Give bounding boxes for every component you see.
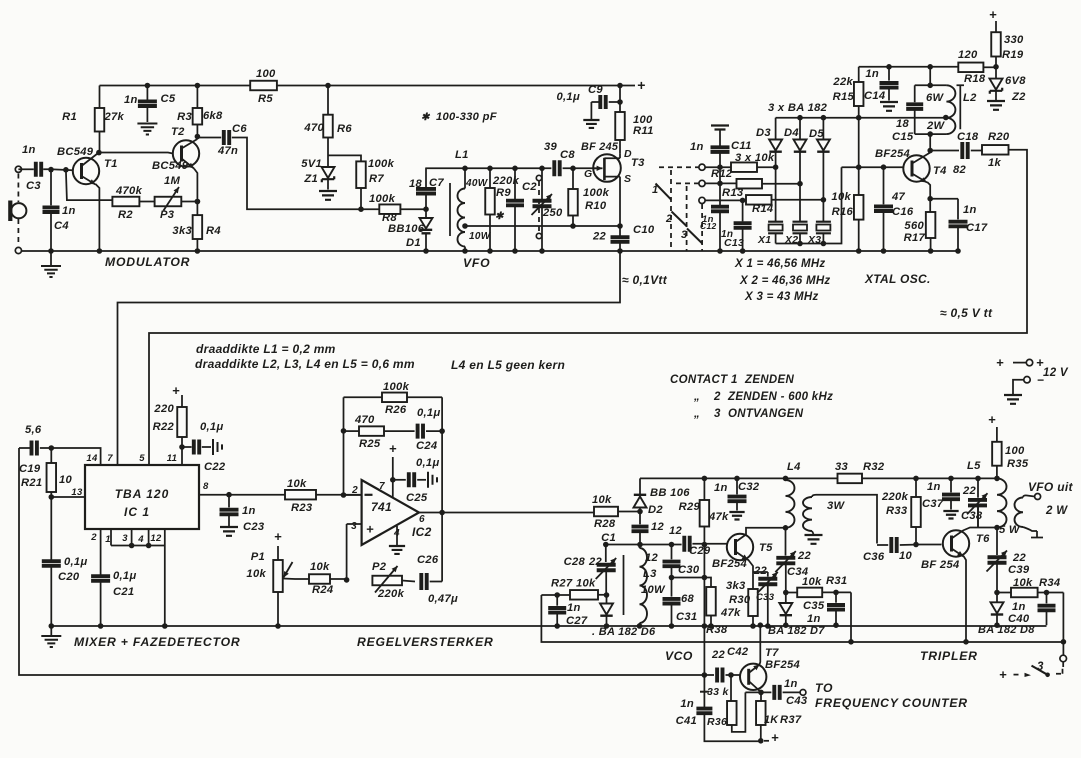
svg-text:Z1: Z1 (303, 173, 318, 185)
svg-text:27k: 27k (104, 111, 125, 123)
svg-text:5V1: 5V1 (301, 158, 322, 170)
svg-text:3: 3 (122, 533, 128, 544)
svg-text:R31: R31 (826, 575, 847, 587)
svg-text:220k: 220k (881, 491, 909, 503)
svg-text:0,1μ: 0,1μ (417, 407, 441, 419)
svg-text:2 W: 2 W (1045, 505, 1068, 517)
svg-text:22k: 22k (832, 76, 853, 88)
svg-text:39: 39 (544, 141, 558, 153)
svg-text:10k: 10k (246, 568, 266, 580)
svg-text:C27: C27 (566, 615, 588, 627)
svg-text:12: 12 (645, 552, 659, 564)
svg-text:C10: C10 (633, 224, 655, 236)
svg-text:0,1μ: 0,1μ (200, 421, 224, 433)
svg-text:22: 22 (797, 550, 812, 562)
svg-text:R22: R22 (153, 421, 175, 433)
svg-text:+: + (988, 412, 996, 427)
svg-text:2: 2 (351, 485, 358, 496)
svg-text:L4 en L5 geen kern: L4 en L5 geen kern (451, 358, 565, 372)
svg-text:2: 2 (713, 391, 721, 403)
svg-text:C38: C38 (961, 510, 983, 522)
svg-text:TBA 120: TBA 120 (115, 487, 170, 501)
svg-text:C42: C42 (727, 646, 749, 658)
svg-text:1n: 1n (124, 94, 138, 106)
svg-text:7: 7 (107, 453, 113, 464)
svg-text:IC 1: IC 1 (124, 505, 150, 519)
svg-text:TO: TO (815, 681, 833, 695)
svg-text:0,1μ: 0,1μ (64, 556, 88, 568)
svg-text:C20: C20 (58, 571, 80, 583)
svg-text:3: 3 (714, 408, 721, 420)
svg-text:10W: 10W (641, 584, 666, 596)
svg-text:+: + (989, 7, 997, 22)
svg-text:1n: 1n (690, 141, 704, 153)
svg-text:6W: 6W (926, 92, 945, 104)
svg-text:C17: C17 (966, 222, 988, 234)
svg-text:100k: 100k (383, 381, 410, 393)
svg-text:R18: R18 (964, 73, 986, 85)
svg-text:L5: L5 (967, 460, 981, 472)
svg-text:3 x BA 182: 3 x BA 182 (768, 102, 828, 114)
svg-text:R9: R9 (496, 187, 511, 199)
svg-text:„: „ (693, 408, 700, 420)
svg-text:MIXER + FAZEDETECTOR: MIXER + FAZEDETECTOR (74, 635, 240, 649)
svg-text:R6: R6 (337, 123, 352, 135)
svg-text:C25: C25 (406, 492, 428, 504)
svg-text:100k: 100k (583, 187, 610, 199)
svg-text:100-330 pF: 100-330 pF (436, 111, 498, 123)
svg-text:R2: R2 (118, 209, 133, 221)
svg-text:≈ 0,1Vtt: ≈ 0,1Vtt (622, 273, 668, 287)
svg-text:6k8: 6k8 (203, 110, 223, 122)
svg-text:R36: R36 (707, 716, 727, 728)
svg-text:8: 8 (203, 481, 209, 492)
svg-text:2W: 2W (926, 120, 946, 132)
svg-text:22: 22 (962, 485, 977, 497)
svg-text:4: 4 (393, 528, 400, 539)
svg-text:10: 10 (59, 474, 73, 486)
svg-text:+: + (996, 355, 1004, 370)
svg-text:C37: C37 (922, 498, 944, 510)
svg-text:+: + (366, 522, 374, 537)
svg-text:10: 10 (899, 550, 913, 562)
svg-text:1: 1 (105, 534, 111, 545)
svg-text:3: 3 (351, 521, 357, 532)
svg-text:BF254: BF254 (712, 558, 748, 570)
svg-text:13: 13 (71, 487, 83, 498)
svg-text:+: + (637, 77, 645, 93)
svg-text:C18: C18 (957, 131, 979, 143)
svg-text:100: 100 (256, 68, 276, 80)
svg-text:G: G (584, 168, 592, 180)
svg-text:R13: R13 (722, 187, 744, 199)
svg-text:BB106: BB106 (388, 223, 425, 235)
svg-text:22: 22 (1012, 552, 1027, 564)
svg-text:3: 3 (681, 229, 687, 241)
svg-text:BF 245: BF 245 (581, 141, 619, 153)
svg-text:1n: 1n (680, 698, 694, 710)
svg-text:MODULATOR: MODULATOR (105, 255, 190, 269)
svg-text:BA 182 D7: BA 182 D7 (768, 625, 825, 637)
svg-text:C23: C23 (243, 521, 265, 533)
svg-text:C11: C11 (731, 140, 752, 152)
svg-text:R16: R16 (832, 206, 854, 218)
svg-text:C19: C19 (19, 463, 41, 475)
svg-text:BC549: BC549 (152, 160, 189, 172)
svg-text:7: 7 (379, 481, 385, 492)
svg-text:C3: C3 (26, 180, 41, 192)
svg-text:R14: R14 (752, 203, 774, 215)
svg-text:+: + (172, 383, 180, 398)
svg-text:1K: 1K (764, 714, 779, 726)
svg-text:COUNTER: COUNTER (902, 696, 968, 710)
svg-text:S: S (624, 173, 631, 185)
svg-text:1n: 1n (62, 205, 76, 217)
svg-text:220k: 220k (377, 588, 405, 600)
svg-text:R15: R15 (833, 91, 855, 103)
svg-text:TRIPLER: TRIPLER (920, 649, 978, 663)
svg-text:470k: 470k (115, 185, 143, 197)
svg-text:12: 12 (669, 525, 683, 537)
svg-text:R34: R34 (1039, 577, 1061, 589)
svg-text:T2: T2 (171, 126, 185, 138)
svg-text:R29: R29 (679, 501, 701, 513)
svg-text:L2: L2 (963, 92, 977, 104)
svg-text:22: 22 (711, 649, 726, 661)
svg-text:C1: C1 (601, 532, 616, 544)
svg-text:C41: C41 (676, 715, 697, 727)
svg-text:C4: C4 (54, 220, 69, 232)
svg-text:R32: R32 (863, 461, 885, 473)
svg-text:1n: 1n (927, 481, 941, 493)
svg-text:+: + (999, 667, 1007, 682)
svg-text:100k: 100k (368, 158, 395, 170)
svg-text:33 k: 33 k (707, 686, 729, 698)
svg-text:5,6: 5,6 (25, 424, 42, 436)
svg-text:R19: R19 (1002, 49, 1024, 61)
svg-text:1M: 1M (164, 175, 181, 187)
svg-text:220: 220 (153, 403, 174, 415)
svg-text:VFO uit: VFO uit (1028, 480, 1073, 494)
svg-text:+: + (389, 441, 397, 456)
svg-text:R12: R12 (711, 168, 733, 180)
svg-text:100: 100 (1005, 445, 1025, 457)
svg-text:R3: R3 (177, 111, 192, 123)
svg-text:3: 3 (1037, 661, 1044, 673)
svg-text:R1: R1 (62, 111, 77, 123)
svg-text:X 1 = 46,56 MHz: X 1 = 46,56 MHz (734, 258, 825, 270)
svg-text:R24: R24 (312, 584, 334, 596)
svg-text:1n: 1n (714, 482, 728, 494)
svg-text:BB 106: BB 106 (650, 487, 690, 499)
svg-text:2: 2 (90, 532, 97, 543)
svg-text:R38: R38 (706, 624, 728, 636)
svg-text:P3: P3 (160, 209, 175, 221)
svg-text:14: 14 (86, 453, 98, 464)
svg-text:draaddikte L2, L3, L4 en L5 =: draaddikte L2, L3, L4 en L5 = 0,6 mm (195, 357, 415, 371)
svg-text:R25: R25 (359, 438, 381, 450)
svg-text:ONTVANGEN: ONTVANGEN (728, 408, 804, 420)
svg-text:P1: P1 (251, 551, 265, 563)
svg-text:47n: 47n (217, 145, 238, 157)
svg-text:R10: R10 (585, 200, 607, 212)
svg-text:C43: C43 (786, 695, 808, 707)
svg-text:+: + (771, 730, 779, 745)
svg-text:1n: 1n (784, 678, 798, 690)
svg-text:REGELVERSTERKER: REGELVERSTERKER (357, 635, 494, 649)
svg-text:C31: C31 (676, 611, 697, 623)
svg-text:C32: C32 (738, 481, 760, 493)
svg-text:C21: C21 (113, 586, 134, 598)
svg-text:BF254: BF254 (765, 659, 801, 671)
svg-text:R5: R5 (258, 93, 273, 105)
svg-text:1n: 1n (242, 505, 256, 517)
svg-text:IC2: IC2 (412, 525, 432, 539)
svg-text:2: 2 (665, 213, 672, 225)
svg-text:3k3: 3k3 (726, 580, 746, 592)
svg-text:4: 4 (137, 534, 144, 545)
svg-text:22: 22 (588, 556, 603, 568)
svg-text:33: 33 (835, 461, 849, 473)
svg-text:68: 68 (681, 593, 695, 605)
svg-text:VFO: VFO (463, 256, 490, 270)
svg-text:R35: R35 (1007, 458, 1029, 470)
svg-text:10k: 10k (576, 578, 596, 590)
svg-text:C8: C8 (560, 149, 575, 161)
svg-text:BC549: BC549 (57, 146, 94, 158)
svg-text:„: „ (693, 391, 700, 403)
svg-text:3k3: 3k3 (172, 225, 192, 237)
svg-text:L4: L4 (787, 461, 801, 473)
svg-text:T3: T3 (631, 157, 645, 169)
svg-text:C9: C9 (588, 84, 603, 96)
svg-text:C5: C5 (161, 93, 176, 105)
svg-text:18: 18 (409, 178, 423, 190)
svg-text:D1: D1 (406, 237, 421, 249)
svg-text:BF 254: BF 254 (921, 559, 960, 571)
svg-text:10k: 10k (831, 191, 851, 203)
svg-text:R7: R7 (369, 173, 384, 185)
svg-text:. BA 182 D6: . BA 182 D6 (592, 626, 656, 638)
svg-text:C28: C28 (564, 556, 586, 568)
svg-text:47k: 47k (720, 607, 741, 619)
svg-text:120: 120 (958, 49, 978, 61)
svg-text:✱: ✱ (421, 112, 431, 123)
svg-text:ZENDEN: ZENDEN (744, 374, 794, 386)
svg-text:250: 250 (542, 207, 563, 219)
svg-text:C13: C13 (724, 237, 744, 249)
svg-text:1n: 1n (963, 204, 977, 216)
svg-text:0,47μ: 0,47μ (428, 593, 458, 605)
svg-text:X 2 = 46,36 MHz: X 2 = 46,36 MHz (739, 275, 830, 287)
svg-text:1n: 1n (1012, 601, 1026, 613)
svg-text:C2: C2 (522, 181, 537, 193)
svg-text:741: 741 (371, 500, 392, 514)
svg-text:82: 82 (953, 164, 967, 176)
svg-text:0,1μ: 0,1μ (416, 457, 440, 469)
svg-text:1n: 1n (22, 144, 36, 156)
svg-text:P2: P2 (372, 561, 387, 573)
svg-text:0,1μ: 0,1μ (557, 91, 581, 103)
svg-text:BA 182 D8: BA 182 D8 (978, 624, 1035, 636)
svg-text:C16: C16 (892, 206, 914, 218)
svg-text:D3: D3 (756, 127, 771, 139)
svg-text:L3: L3 (643, 568, 657, 580)
svg-text:X 3 = 43 MHz: X 3 = 43 MHz (744, 291, 819, 303)
svg-text:T6: T6 (976, 533, 990, 545)
svg-text:12: 12 (150, 533, 162, 544)
svg-text:470: 470 (303, 122, 324, 134)
svg-text:3W: 3W (827, 500, 846, 512)
svg-text:10k: 10k (802, 576, 822, 588)
svg-text:6: 6 (419, 514, 425, 525)
svg-text:6V8: 6V8 (1005, 75, 1026, 87)
svg-text:R30: R30 (729, 594, 751, 606)
svg-text:22: 22 (592, 231, 607, 243)
svg-text:CONTACT 1: CONTACT 1 (670, 374, 738, 386)
svg-text:C36: C36 (863, 551, 885, 563)
svg-text:T7: T7 (765, 647, 779, 659)
svg-text:C26: C26 (417, 554, 439, 566)
svg-text:11: 11 (167, 453, 177, 464)
svg-text:draaddikte L1 = 0,2 mm: draaddikte L1 = 0,2 mm (196, 342, 336, 356)
svg-text:XTAL OSC.: XTAL OSC. (864, 272, 931, 286)
svg-text:T1: T1 (104, 158, 118, 170)
svg-text:FREQUENCY: FREQUENCY (815, 696, 900, 710)
svg-text:3 x 10k: 3 x 10k (735, 152, 775, 164)
svg-text:12: 12 (651, 521, 665, 533)
svg-text:R23: R23 (291, 502, 313, 514)
svg-text:C33: C33 (756, 592, 775, 603)
svg-text:1: 1 (652, 184, 658, 196)
svg-text:C35: C35 (803, 600, 825, 612)
svg-text:C24: C24 (416, 440, 438, 452)
svg-text:X1: X1 (757, 234, 771, 246)
svg-text:470: 470 (354, 414, 375, 426)
svg-text:C29: C29 (689, 545, 711, 557)
svg-text:100k: 100k (369, 193, 396, 205)
svg-text:R26: R26 (385, 404, 407, 416)
svg-text:ZENDEN - 600 kHz: ZENDEN - 600 kHz (727, 391, 833, 403)
svg-text:R21: R21 (21, 477, 42, 489)
svg-text:L1: L1 (455, 149, 469, 161)
svg-text:C14: C14 (864, 90, 886, 102)
svg-text:C15: C15 (892, 131, 914, 143)
svg-text:10k: 10k (310, 561, 330, 573)
svg-text:10k: 10k (1013, 577, 1033, 589)
svg-text:Z2: Z2 (1011, 91, 1026, 103)
svg-text:C7: C7 (429, 177, 444, 189)
svg-text:✱: ✱ (495, 211, 505, 222)
svg-text:R33: R33 (886, 505, 908, 517)
svg-text:330: 330 (1004, 34, 1024, 46)
svg-text:R27: R27 (551, 578, 573, 590)
svg-text:R28: R28 (594, 518, 616, 530)
svg-text:560: 560 (904, 220, 924, 232)
svg-text:C39: C39 (1008, 564, 1030, 576)
svg-text:T4: T4 (933, 165, 947, 177)
svg-text:C30: C30 (678, 564, 700, 576)
svg-text:R37: R37 (780, 714, 802, 726)
svg-text:D4: D4 (784, 127, 799, 139)
svg-text:R17: R17 (904, 232, 926, 244)
svg-text:≈ 0,5 V tt: ≈ 0,5 V tt (940, 306, 993, 320)
svg-text:5: 5 (139, 453, 145, 464)
svg-text:VCO: VCO (665, 649, 693, 663)
svg-text:10k: 10k (592, 494, 612, 506)
svg-text:R20: R20 (988, 131, 1010, 143)
svg-text:10W: 10W (469, 231, 492, 242)
svg-text:1n: 1n (807, 613, 821, 625)
svg-text:D5: D5 (809, 128, 824, 140)
svg-text:18: 18 (896, 118, 910, 130)
svg-text:C6: C6 (232, 123, 247, 135)
svg-text:12 V: 12 V (1043, 367, 1069, 379)
svg-text:1n: 1n (865, 68, 879, 80)
svg-text:10k: 10k (287, 478, 307, 490)
svg-text:22: 22 (753, 565, 768, 577)
svg-text:1n: 1n (567, 602, 581, 614)
svg-text:C22: C22 (204, 461, 226, 473)
svg-text:1k: 1k (988, 157, 1002, 169)
svg-text:R4: R4 (206, 225, 221, 237)
svg-text:R11: R11 (633, 125, 654, 137)
svg-text:47k: 47k (708, 511, 729, 523)
svg-text:BF254: BF254 (875, 148, 911, 160)
svg-text:+: + (274, 529, 282, 544)
svg-text:T5: T5 (759, 542, 773, 554)
svg-text:0,1μ: 0,1μ (113, 570, 137, 582)
svg-text:47: 47 (891, 191, 906, 203)
svg-text:D2: D2 (648, 504, 663, 516)
